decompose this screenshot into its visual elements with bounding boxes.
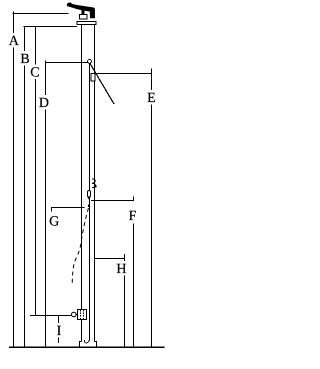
- hand sprayer wand diagonal: [90, 64, 114, 105]
- foot tap knob circle: [72, 312, 77, 317]
- wire dimension F vertical: [133, 224, 135, 348]
- label backgrounds: [9, 33, 157, 338]
- hose clip blob: [94, 185, 97, 188]
- wire dimension F vertical tick: [133, 197, 135, 202]
- foot tap body ribs: [80, 310, 82, 319]
- svg-text:E: E: [147, 91, 156, 106]
- wire dimension G horizontal: [51, 207, 85, 209]
- wire dimension H vertical: [124, 254, 126, 347]
- mixer arrow: [87, 197, 90, 200]
- sprayer holder bracket: [91, 74, 95, 82]
- svg-text:G: G: [49, 214, 59, 229]
- pole base flange left: [80, 342, 82, 348]
- wire dimension E horizontal: [95, 73, 152, 75]
- wire dimension I vertical: [58, 316, 60, 344]
- wire dimension F horizontal: [91, 200, 134, 202]
- svg-text:C: C: [30, 65, 39, 80]
- wire dimension A vertical: [13, 12, 15, 348]
- svg-text:D: D: [39, 96, 49, 111]
- wire dimension H horizontal: [94, 258, 125, 260]
- mixer capsule knob: [88, 191, 91, 198]
- lever connector: [80, 15, 88, 20]
- svg-text:B: B: [20, 52, 29, 67]
- wire dimension B vertical: [24, 27, 26, 348]
- wire dimension C vertical: [35, 27, 37, 316]
- dashed hidden hose curve: [72, 208, 88, 286]
- pole right edge: [94, 25, 96, 342]
- top lever faucet head: [67, 3, 94, 18]
- pole top cap: [77, 22, 96, 25]
- hose clip on pole: [92, 179, 95, 188]
- wire dimension G tick: [51, 208, 53, 212]
- wire dimension I horizontal (foot tap height line): [30, 315, 72, 317]
- wire dimension D horizontal: [46, 62, 88, 64]
- foot tap body: [78, 310, 87, 320]
- pole base flange right: [95, 342, 97, 348]
- foot tap stem: [76, 314, 78, 316]
- sprayer head circle: [88, 60, 92, 64]
- wire dimension A horizontal: [13, 13, 69, 15]
- pole left edge: [81, 25, 83, 342]
- ground line: [9, 346, 165, 348]
- svg-text:I: I: [57, 324, 62, 339]
- svg-text:H: H: [116, 262, 126, 277]
- lever stem: [82, 10, 85, 15]
- mixer dot: [88, 205, 90, 207]
- wire dimension D vertical: [45, 61, 47, 348]
- wire dimension B/C horizontal: [24, 26, 78, 28]
- hose vertical with bottom hook: [85, 63, 90, 343]
- svg-text:A: A: [9, 34, 20, 49]
- wire dimension E vertical: [151, 68, 153, 347]
- svg-text:F: F: [129, 209, 137, 224]
